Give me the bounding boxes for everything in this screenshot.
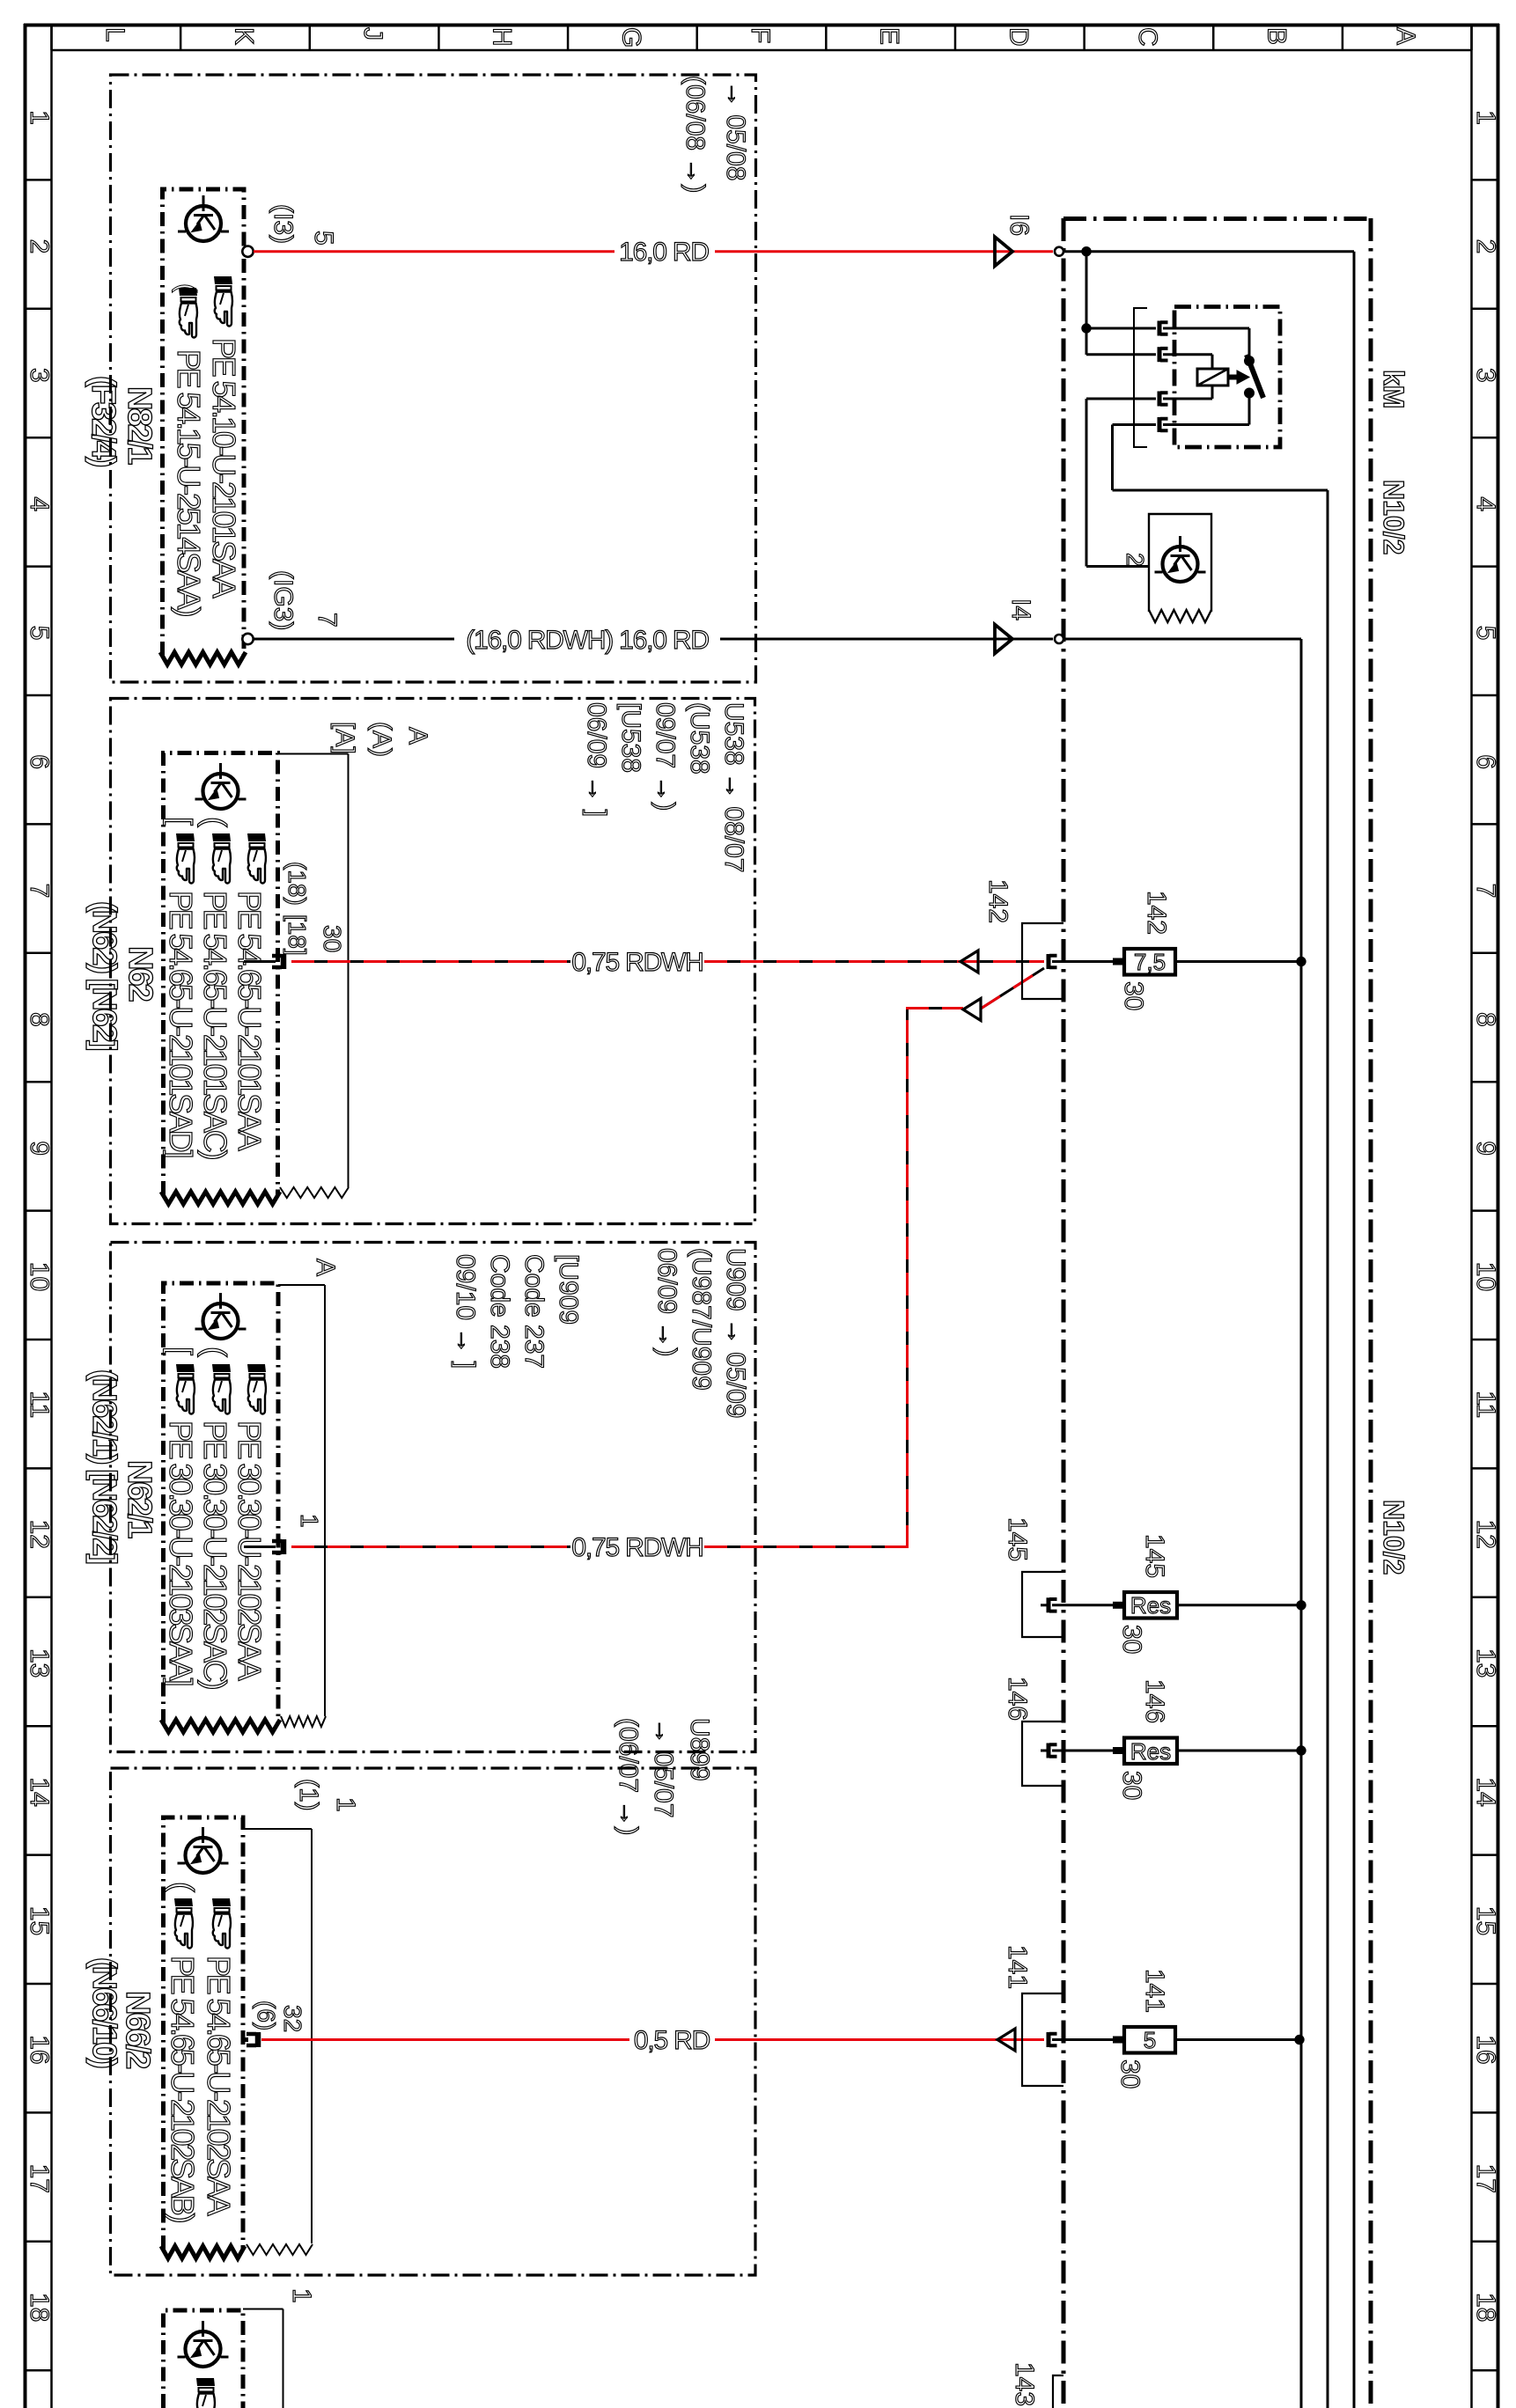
svg-text:(F32/4): (F32/4) (85, 376, 121, 466)
svg-text:0,5 RD: 0,5 RD (634, 2026, 710, 2055)
svg-text:6: 6 (25, 754, 54, 769)
component N66/2 box (161, 1817, 245, 2258)
svg-text:17: 17 (1471, 2164, 1500, 2193)
svg-text:→ 05/07: → 05/07 (649, 1718, 678, 1817)
N62 pin 30 terminal (244, 862, 346, 969)
svg-text:A: A (1391, 27, 1420, 45)
svg-text:7: 7 (313, 613, 342, 628)
svg-text:09/10 → ]: 09/10 → ] (451, 1254, 480, 1369)
svg-text:10: 10 (25, 1262, 54, 1291)
svg-text:142: 142 (983, 879, 1012, 923)
svg-text:142: 142 (1142, 891, 1171, 935)
relay switch contacts (1245, 355, 1264, 398)
svg-text:[A]: [A] (330, 722, 359, 754)
N82/1 hand pictograms + PE references (171, 276, 242, 616)
svg-text:(A): (A) (367, 722, 396, 757)
relay socket pin 3 (1159, 392, 1168, 407)
annotation U909 revisions (451, 1248, 750, 1418)
relay actuator arrow (1228, 371, 1249, 384)
junction dot fuse 142 to bus (1297, 957, 1306, 965)
svg-text:5: 5 (309, 231, 338, 246)
svg-text:30: 30 (319, 925, 346, 952)
svg-text:(N62/1) [N62/2]: (N62/1) [N62/2] (85, 1369, 122, 1563)
wire relay pin 3 to transistor box (pin 2) (1086, 399, 1156, 567)
arrow on wire 0,75 RDWH (N62) (960, 951, 978, 973)
svg-text:0,75 RDWH: 0,75 RDWH (571, 1533, 703, 1562)
svg-text:1: 1 (287, 2288, 316, 2303)
svg-text:4: 4 (1471, 496, 1500, 511)
N82/1 pin 7 terminal (242, 634, 253, 644)
relay socket pin 1 (1159, 321, 1168, 336)
label N62 (N62) [N62] (85, 901, 158, 1050)
N62 connector A outline (278, 722, 433, 1198)
component N62/1 box (161, 1283, 280, 1732)
svg-text:143: 143 (1010, 2362, 1039, 2406)
svg-text:3: 3 (1471, 368, 1500, 383)
svg-text:[: [ (163, 817, 199, 826)
svg-text:A: A (403, 727, 432, 745)
svg-text:2: 2 (25, 239, 54, 254)
svg-text:PE 30.30-U-2102SAA: PE 30.30-U-2102SAA (232, 1421, 268, 1681)
svg-text:10: 10 (1471, 1262, 1500, 1291)
svg-text:8: 8 (25, 1012, 54, 1027)
svg-text:4: 4 (25, 496, 54, 511)
svg-text:PE 54.65-U-2101SAD]: PE 54.65-U-2101SAD] (163, 891, 199, 1157)
svg-text:06/09 →): 06/09 →) (652, 1248, 681, 1356)
arrow on wire 0,5 RD (997, 2029, 1015, 2051)
svg-text:141: 141 (1003, 1945, 1032, 1989)
svg-text:1: 1 (1471, 110, 1500, 125)
svg-text:18: 18 (1471, 2293, 1500, 2322)
svg-text:(: ( (165, 1882, 201, 1892)
svg-text:(06/07 →): (06/07 →) (614, 1718, 643, 1835)
svg-text:A: A (311, 1259, 340, 1276)
svg-text:(: ( (197, 1347, 233, 1357)
output stage symbol (1155, 536, 1206, 582)
svg-text:U909 → 05/09: U909 → 05/09 (721, 1248, 750, 1418)
N10/2 internal bus from I4 (1064, 639, 1302, 2408)
bracket 145 on N10/2 border (1003, 1517, 1063, 1637)
harness box (contains N62/1) (111, 1243, 756, 1752)
svg-text:Code 237: Code 237 (519, 1254, 548, 1369)
svg-text:145: 145 (1003, 1517, 1032, 1561)
svg-text:12: 12 (25, 1520, 54, 1549)
label N62/1 (N62/1) [N62/2] (85, 1369, 158, 1563)
svg-text:141: 141 (1140, 1969, 1169, 2013)
svg-text:14: 14 (1471, 1777, 1500, 1806)
svg-text:11: 11 (1471, 1391, 1500, 1418)
svg-text:(16,0 RDWH) 16,0 RD: (16,0 RDWH) 16,0 RD (466, 626, 709, 655)
svg-text:5: 5 (1471, 626, 1500, 641)
svg-text:14: 14 (25, 1777, 54, 1806)
svg-text:12: 12 (1471, 1520, 1500, 1549)
svg-text:G: G (616, 27, 645, 48)
svg-text:30: 30 (1117, 1625, 1146, 1654)
svg-text:[: [ (163, 1347, 199, 1355)
svg-text:N62/1: N62/1 (121, 1460, 158, 1538)
harness box (contains N62) (111, 699, 755, 1224)
bracket 146 on N10/2 border (1003, 1677, 1063, 1786)
junction dot fuse 145 to bus (1297, 1601, 1306, 1610)
fuse 141 5A (1052, 1969, 1299, 2089)
svg-text:32: 32 (279, 2005, 306, 2032)
svg-text:[U909: [U909 (554, 1254, 583, 1325)
bracket 141 on N10/2 border (1003, 1945, 1063, 2086)
svg-text:15: 15 (25, 1906, 54, 1935)
svg-text:(U538: (U538 (685, 702, 714, 775)
relay internal wiring (1163, 328, 1249, 425)
svg-text:U538 → 08/07: U538 → 08/07 (719, 702, 748, 872)
svg-text:(06/08 →): (06/08 →) (681, 76, 710, 193)
svg-text:8: 8 (1471, 1012, 1500, 1027)
svg-text:9: 9 (25, 1141, 54, 1156)
svg-text:16,0 RD: 16,0 RD (619, 238, 709, 267)
svg-text:2: 2 (1471, 239, 1500, 254)
bracket 143 on N10/2 border (cut at page edge) (1010, 2362, 1063, 2408)
N62 hand pictograms + PE references (163, 817, 268, 1159)
svg-text:PE 54.15-U-2514SAA): PE 54.15-U-2514SAA) (171, 349, 207, 616)
N82/1 pin 5 terminal (242, 246, 253, 257)
svg-text:J: J (358, 27, 387, 40)
svg-text:11: 11 (25, 1391, 54, 1418)
svg-text:1: 1 (25, 110, 54, 125)
component N82/1 box (160, 189, 246, 664)
svg-text:30: 30 (1117, 1771, 1146, 1800)
partial box hand pictogram (196, 2378, 215, 2408)
N10/2 internal supply wire from I6 (1064, 252, 1355, 2408)
control unit N10/2 border (1063, 218, 1371, 2408)
svg-text:(1): (1) (294, 1779, 323, 1811)
fuse 145 Res (1052, 1534, 1301, 1654)
svg-text:2: 2 (1122, 553, 1149, 567)
wire I6 node to relay pins 1+2 (1086, 252, 1156, 355)
svg-text:16: 16 (25, 2035, 54, 2064)
svg-text:7: 7 (25, 884, 54, 899)
svg-text:Res: Res (1130, 1592, 1171, 1619)
wire 0,75 RDWH from N62 pin 30 to fuse 142 (291, 948, 1044, 977)
relay coil (1197, 369, 1228, 385)
svg-text:PE 30.30-U-2102SAC): PE 30.30-U-2102SAC) (197, 1421, 233, 1689)
svg-text:→ 05/08: → 05/08 (721, 81, 750, 180)
svg-text:30: 30 (1119, 981, 1148, 1010)
N66/2 hand pictograms + PE references (165, 1882, 237, 2222)
svg-text:(N62) [N62]: (N62) [N62] (85, 901, 122, 1050)
N62/1 hand pictograms + PE references (163, 1347, 268, 1689)
svg-text:09/07 →): 09/07 →) (651, 702, 680, 811)
svg-text:1: 1 (296, 1514, 323, 1528)
svg-text:(: ( (197, 817, 233, 827)
relay kM box (1174, 307, 1280, 448)
svg-text:13: 13 (25, 1648, 54, 1678)
junction dot at relay pin 1 branch (1082, 324, 1091, 333)
svg-text:15: 15 (1471, 1906, 1500, 1935)
bracket 142 on N10/2 border (983, 879, 1063, 999)
N10/2 terminal pin for fuse 141 (1049, 2032, 1057, 2047)
svg-text:Code 238: Code 238 (485, 1254, 514, 1369)
N82/1 internal symbol (178, 195, 229, 241)
svg-text:[18]: [18] (283, 914, 311, 956)
arrow I6 (995, 214, 1034, 266)
N10/2 terminal pin for fuse 146 (1041, 1744, 1057, 1758)
svg-text:(6): (6) (253, 2001, 280, 2030)
svg-text:PE 54.10-U-2101SAA: PE 54.10-U-2101SAA (206, 338, 242, 598)
N10/2 terminal ring I6 (1055, 247, 1063, 256)
arrow I4 (995, 598, 1035, 654)
N10/2 terminal ring I4 (1055, 635, 1063, 643)
wire (16,0 RDWH) 16,0 RD from N82/1 pin 7 to N10/2 (I4) (254, 626, 1053, 655)
arrow on wire 0,75 RDWH (N62/1) (963, 999, 981, 1021)
svg-text:PE 54.65-U-2101SAA: PE 54.65-U-2101SAA (232, 891, 268, 1151)
transistor output stage box pin 2 (1122, 514, 1211, 622)
partial box connector 1 outline (243, 2288, 316, 2408)
svg-text:6: 6 (1471, 754, 1500, 769)
svg-text:F: F (746, 27, 775, 43)
svg-text:06/09 → ]: 06/09 → ] (582, 702, 611, 817)
svg-text:(18): (18) (283, 862, 311, 906)
svg-text:N82/1: N82/1 (121, 386, 158, 465)
wire 0,5 RD from N66/2 pin 32 to fuse 141 (261, 2026, 1044, 2055)
svg-text:146: 146 (1140, 1679, 1169, 1723)
label N66/2 (N66/10) (85, 1957, 156, 2068)
N62/1 connector A outline (278, 1259, 340, 1727)
svg-text:(U987/U909: (U987/U909 (687, 1248, 716, 1391)
relay socket pin 4 (1159, 417, 1168, 432)
junction dot at supply node (1082, 247, 1091, 256)
svg-text:(IG3): (IG3) (269, 570, 298, 630)
N62/1 pin 1 terminal (244, 1514, 323, 1554)
svg-text:7,5: 7,5 (1134, 949, 1166, 975)
relay socket pin 2 (1159, 347, 1168, 362)
svg-text:H: H (488, 27, 517, 47)
annotation U538 revisions (582, 702, 748, 872)
wire 0,75 RDWH from N62/1 pin 1 joining fuse 142 (291, 968, 1044, 1562)
svg-text:C: C (1133, 27, 1162, 47)
partial component box at page bottom (164, 2310, 244, 2408)
svg-text:0,75 RDWH: 0,75 RDWH (571, 948, 703, 977)
N62 internal symbol (195, 763, 247, 809)
svg-text:7: 7 (1471, 884, 1500, 899)
harness box (contains N66/2) (111, 1768, 756, 2275)
wire 16,0 RD from N82/1 pin 5 to N10/2 (I6) (254, 238, 1053, 267)
fuse 142 7,5A (1052, 891, 1301, 1010)
svg-text:[U538: [U538 (616, 702, 645, 773)
svg-text:17: 17 (25, 2164, 54, 2193)
N66/2 pin 32 terminal (243, 2001, 306, 2047)
svg-text:N62: N62 (121, 946, 158, 1002)
partial box internal symbol (178, 2321, 229, 2367)
svg-text:(I3): (I3) (269, 204, 298, 244)
svg-text:13: 13 (1471, 1648, 1500, 1678)
svg-text:N66/2: N66/2 (119, 1991, 156, 2068)
svg-text:PE 54.65-U-2102SAB): PE 54.65-U-2102SAB) (165, 1956, 201, 2222)
svg-text:B: B (1262, 27, 1292, 45)
svg-text:145: 145 (1140, 1534, 1169, 1578)
svg-text:E: E (875, 27, 904, 45)
N66/2 internal symbol (178, 1827, 229, 1873)
svg-text:18: 18 (25, 2293, 54, 2322)
annotation U899 revisions (614, 1718, 714, 1835)
svg-text:PE 54.65-U-2101SAC): PE 54.65-U-2101SAC) (197, 891, 233, 1159)
svg-text:16: 16 (1471, 2035, 1500, 2064)
svg-text:K: K (229, 27, 258, 45)
wire relay pin 4 output (1113, 425, 1328, 2408)
relay socket outline (1134, 308, 1147, 447)
component N62 box (161, 753, 280, 1205)
N62/1 internal symbol (195, 1293, 247, 1339)
N10/2 terminal pin for fuse 142 (1049, 954, 1057, 969)
svg-text:9: 9 (1471, 1141, 1500, 1156)
svg-text:5: 5 (1144, 2027, 1156, 2053)
svg-text:L: L (100, 27, 129, 42)
N66/2 connector 1 outline (243, 1779, 360, 2255)
junction dot fuse 141 to bus (1295, 2035, 1304, 2044)
svg-text:N10/2: N10/2 (1378, 480, 1409, 554)
svg-text:U899: U899 (685, 1718, 714, 1781)
svg-text:3: 3 (25, 368, 54, 383)
fuse 146 Res (1052, 1679, 1301, 1800)
harness box F32/4 region (contains N82/1) (111, 75, 756, 682)
svg-text:D: D (1004, 27, 1033, 47)
svg-text:146: 146 (1003, 1677, 1032, 1721)
svg-text:N10/2: N10/2 (1378, 1500, 1409, 1575)
svg-text:Res: Res (1130, 1738, 1171, 1765)
svg-text:I4: I4 (1006, 598, 1035, 620)
svg-text:kM: kM (1378, 370, 1409, 408)
svg-text:5: 5 (25, 626, 54, 641)
label N82/1 (F32/4) (85, 376, 158, 466)
svg-text:PE 30.30-U-2103SAA]: PE 30.30-U-2103SAA] (163, 1421, 199, 1685)
N10/2 terminal pin for fuse 145 (1041, 1597, 1057, 1612)
svg-text:1: 1 (331, 1797, 360, 1812)
svg-text:I6: I6 (1005, 214, 1034, 236)
svg-text:30: 30 (1115, 2059, 1144, 2089)
junction dot fuse 146 to bus (1297, 1746, 1306, 1755)
svg-text:PE 54.65-U-2102SAA: PE 54.65-U-2102SAA (201, 1956, 237, 2216)
svg-text:(N66/10): (N66/10) (85, 1957, 122, 2067)
